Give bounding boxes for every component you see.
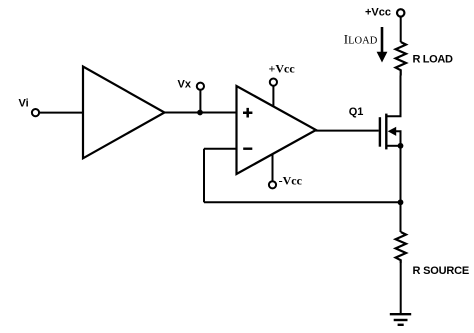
terminal +Vcc op-amp xyxy=(270,79,277,86)
transistor Q1 source lead xyxy=(388,145,401,147)
wire op-amp output to gate of Q1 xyxy=(316,130,379,132)
junction dot at Q1 source xyxy=(398,143,404,149)
op-amp + input symbol xyxy=(243,108,252,118)
svg-text:+Vcc: +Vcc xyxy=(365,7,391,19)
svg-text:Q1: Q1 xyxy=(349,106,364,118)
transistor Q1 drain lead xyxy=(388,76,401,117)
buffer amplifier A1 xyxy=(83,67,165,159)
wire node to R SOURCE xyxy=(400,202,402,232)
op-amp - input symbol xyxy=(243,147,252,149)
terminal Vx xyxy=(197,83,204,90)
terminal +Vcc top xyxy=(397,9,404,16)
current arrow ILOAD shaft xyxy=(381,27,384,54)
node Vx junction dot xyxy=(197,110,203,116)
svg-text:-Vcc: -Vcc xyxy=(279,173,303,187)
current arrow ILOAD head xyxy=(377,52,388,63)
wire feedback horizontal xyxy=(204,201,401,203)
terminal -Vcc op-amp xyxy=(269,181,276,188)
wire feedback to op-amp - input xyxy=(204,148,237,150)
transistor Q1 bulk arrow head xyxy=(388,127,397,136)
wire +Vcc supply to op-amp xyxy=(272,86,274,107)
wire Vi to buffer input xyxy=(39,112,83,114)
wire buffer output to op-amp + input xyxy=(165,112,237,114)
transistor Q1 gate bar xyxy=(379,117,381,147)
resistor R SOURCE xyxy=(396,232,406,263)
wire feedback vertical xyxy=(203,149,205,203)
wire Q1 source down to feedback node xyxy=(400,146,402,203)
transistor Q1 bulk connection wire xyxy=(393,131,401,146)
svg-text:+Vcc: +Vcc xyxy=(269,61,296,75)
resistor R LOAD xyxy=(396,42,406,76)
wire Vx terminal stub xyxy=(199,90,201,113)
wire -Vcc supply to op-amp xyxy=(272,154,274,182)
terminal Vi xyxy=(32,109,39,116)
svg-text:Vi: Vi xyxy=(19,98,29,110)
op-amp U1 xyxy=(237,86,317,174)
svg-text:R SOURCE: R SOURCE xyxy=(413,265,469,277)
node feedback junction dot xyxy=(398,199,404,205)
svg-text:Vx: Vx xyxy=(178,79,192,91)
svg-text:R LOAD: R LOAD xyxy=(413,53,453,65)
wire R SOURCE to ground xyxy=(400,263,402,314)
wire +Vcc to R LOAD xyxy=(400,17,402,42)
transistor Q1 channel bar xyxy=(385,114,387,150)
ground xyxy=(390,314,411,325)
